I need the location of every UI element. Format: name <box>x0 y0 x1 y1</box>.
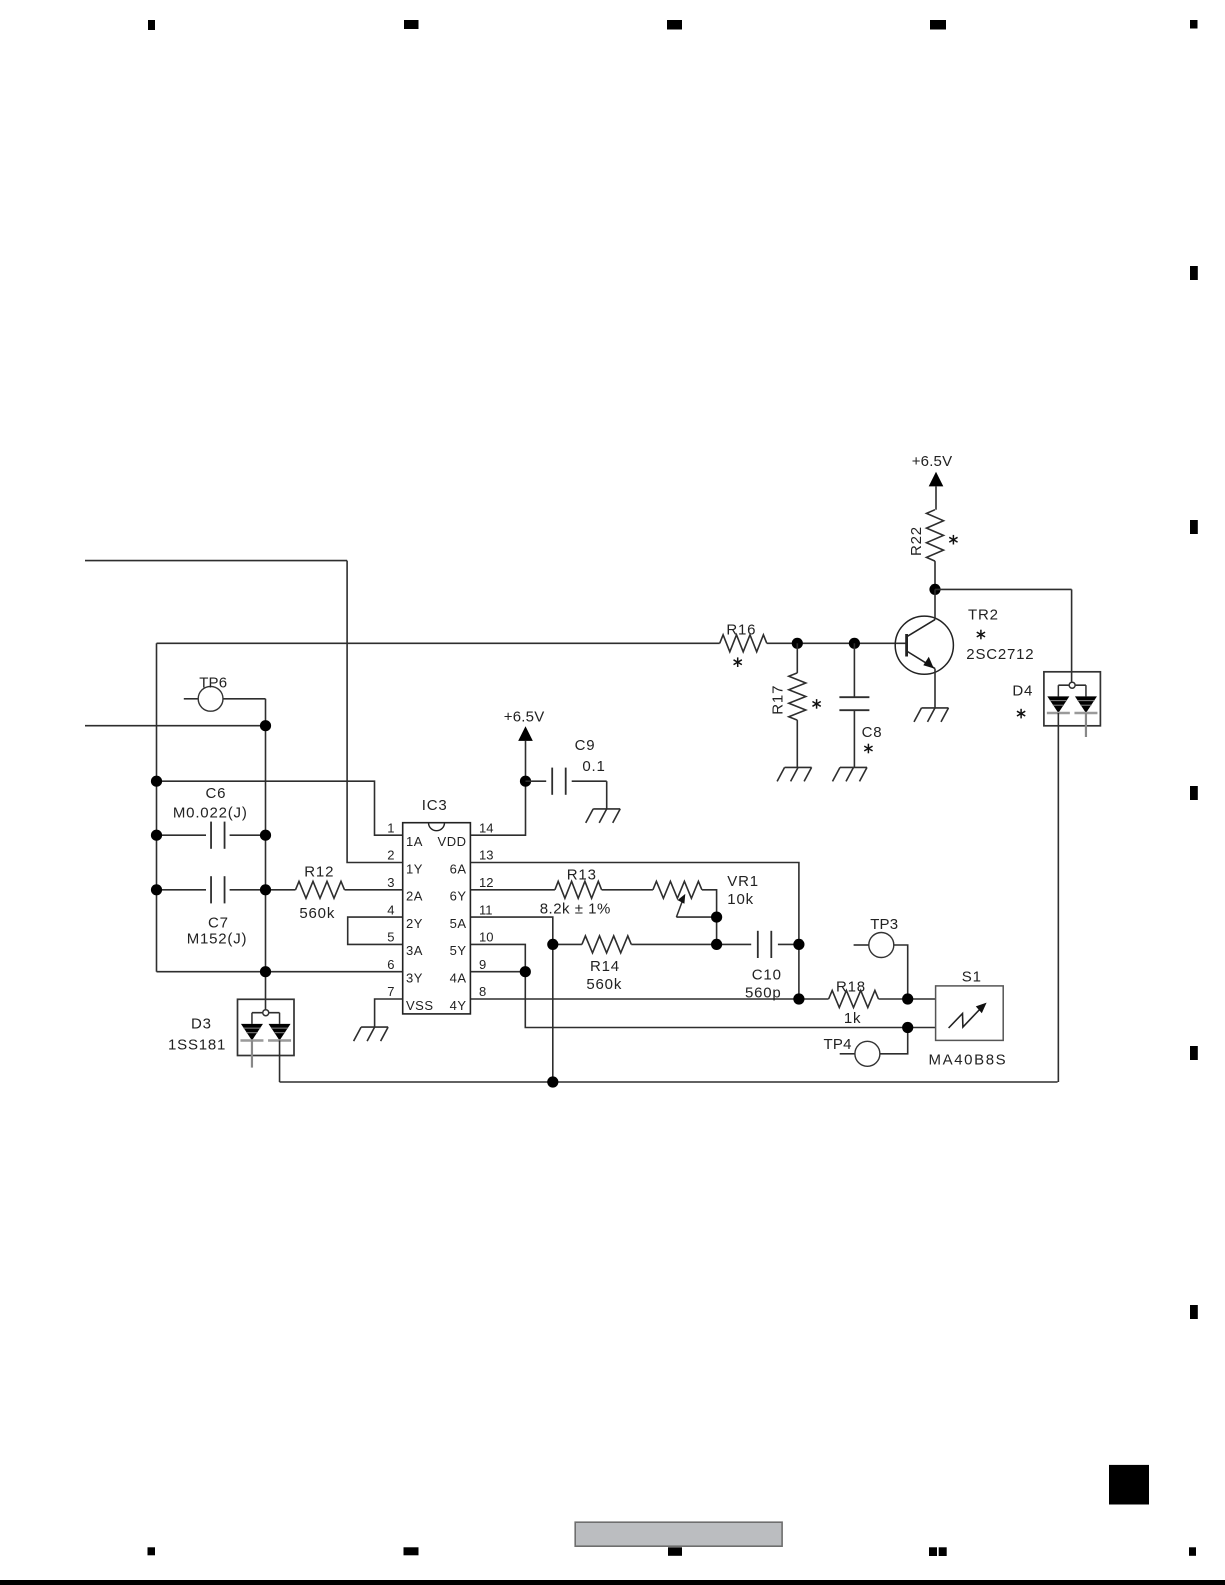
svg-text:R14: R14 <box>590 958 620 975</box>
svg-text:9: 9 <box>479 957 486 972</box>
svg-text:560p: 560p <box>745 984 782 1001</box>
svg-text:5Y: 5Y <box>450 943 467 958</box>
svg-text:0.1: 0.1 <box>582 758 605 775</box>
svg-text:S1: S1 <box>962 969 982 986</box>
svg-text:2: 2 <box>387 848 394 863</box>
svg-text:+6.5V: +6.5V <box>504 708 545 725</box>
svg-text:10k: 10k <box>727 891 754 908</box>
svg-text:IC3: IC3 <box>422 797 448 814</box>
svg-text:6A: 6A <box>450 861 467 876</box>
svg-text:4A: 4A <box>450 971 467 986</box>
svg-text:8: 8 <box>479 984 486 999</box>
svg-text:D4: D4 <box>1012 682 1033 699</box>
svg-text:4: 4 <box>387 902 394 917</box>
svg-text:TP6: TP6 <box>199 675 227 692</box>
svg-text:VDD: VDD <box>438 834 467 849</box>
svg-text:R22: R22 <box>908 526 925 556</box>
svg-text:R17: R17 <box>770 685 787 715</box>
svg-text:6: 6 <box>387 957 394 972</box>
svg-text:6Y: 6Y <box>450 889 467 904</box>
svg-text:3: 3 <box>387 875 394 890</box>
svg-text:4Y: 4Y <box>450 998 467 1013</box>
svg-text:R18: R18 <box>836 978 866 995</box>
svg-text:11: 11 <box>479 902 493 917</box>
svg-text:C10: C10 <box>752 966 782 983</box>
svg-text:C8: C8 <box>862 724 883 741</box>
svg-text:560k: 560k <box>586 976 622 993</box>
svg-text:14: 14 <box>479 820 493 835</box>
svg-text:M152(J): M152(J) <box>187 931 248 948</box>
svg-text:2A: 2A <box>406 889 423 904</box>
svg-text:TP4: TP4 <box>824 1036 852 1053</box>
svg-text:R16: R16 <box>726 621 756 638</box>
svg-text:560k: 560k <box>299 905 335 922</box>
svg-text:1: 1 <box>387 820 394 835</box>
svg-text:TR2: TR2 <box>968 606 999 623</box>
svg-text:3A: 3A <box>406 943 423 958</box>
svg-text:3Y: 3Y <box>406 971 423 986</box>
svg-text:8.2k ± 1%: 8.2k ± 1% <box>540 901 611 918</box>
svg-text:C6: C6 <box>206 785 227 802</box>
svg-text:D3: D3 <box>191 1016 212 1033</box>
svg-text:2Y: 2Y <box>406 916 423 931</box>
svg-text:TP3: TP3 <box>870 916 898 933</box>
svg-text:R13: R13 <box>567 867 597 884</box>
svg-text:+6.5V: +6.5V <box>912 453 953 470</box>
svg-text:5: 5 <box>387 930 394 945</box>
svg-text:1A: 1A <box>406 834 423 849</box>
svg-text:C7: C7 <box>208 914 229 931</box>
svg-text:M0.022(J): M0.022(J) <box>173 805 248 822</box>
svg-text:C9: C9 <box>575 737 596 754</box>
svg-text:12: 12 <box>479 875 493 890</box>
svg-text:VSS: VSS <box>406 998 434 1013</box>
svg-text:VR1: VR1 <box>727 873 759 890</box>
svg-text:1SS181: 1SS181 <box>168 1037 226 1054</box>
svg-text:5A: 5A <box>450 916 467 931</box>
svg-text:7: 7 <box>387 984 394 999</box>
svg-text:10: 10 <box>479 930 493 945</box>
svg-text:1Y: 1Y <box>406 861 423 876</box>
svg-text:MA40B8S: MA40B8S <box>929 1052 1008 1069</box>
svg-text:2SC2712: 2SC2712 <box>966 646 1034 663</box>
svg-text:1k: 1k <box>844 1010 861 1027</box>
svg-text:R12: R12 <box>304 863 334 880</box>
svg-text:13: 13 <box>479 848 493 863</box>
